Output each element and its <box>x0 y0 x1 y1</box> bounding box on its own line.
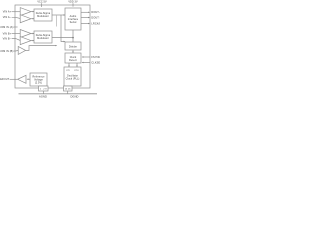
op-amp A1 <box>20 8 31 16</box>
op-amp A4 <box>20 37 31 45</box>
svg-text:VCOM IN (A): VCOM IN (A) <box>0 26 13 29</box>
wire VIN B+ to amp A3 <box>12 33 21 35</box>
svg-text:(2.5V): (2.5V) <box>35 82 42 85</box>
svg-text:DOUT A: DOUT A <box>91 11 100 14</box>
wire DGND stub <box>67 91 69 94</box>
svg-text:VCOM IN (B): VCOM IN (B) <box>0 50 13 53</box>
svg-text:DOUT B: DOUT B <box>91 16 100 19</box>
label U3 text <box>69 45 77 48</box>
divider block U3 <box>65 42 81 50</box>
svg-text:XTI: XTI <box>66 70 70 72</box>
wire vertical rail node N1 <box>56 15 58 27</box>
wire DOUT A arrow <box>81 12 90 13</box>
label U5 pin XTI <box>66 70 70 72</box>
op-amp A6 reference buffer <box>18 75 26 83</box>
wire U6 to buffer arrow <box>27 79 30 80</box>
label pin FSYNC <box>91 56 100 59</box>
svg-text:FSYNC: FSYNC <box>91 56 100 59</box>
label U2 text <box>68 15 79 24</box>
svg-text:VIN A+: VIN A+ <box>3 11 12 14</box>
label ground DGND <box>70 95 78 99</box>
wire A1 out arrow <box>31 11 34 12</box>
svg-text:Divider: Divider <box>69 45 77 48</box>
svg-text:VREFOUT: VREFOUT <box>0 78 10 81</box>
wire A2 out arrow <box>31 18 34 19</box>
wire A3 out arrow <box>31 33 34 34</box>
wire U3 to U4 arrow <box>72 50 73 53</box>
pin VDD (top) <box>72 3 74 6</box>
label U4 text <box>69 56 77 62</box>
pin VCC (top) <box>41 3 43 7</box>
svg-text:VDD 3V: VDD 3V <box>68 1 78 4</box>
clock block U4 <box>65 53 81 63</box>
wire DOUT B arrow <box>81 17 90 18</box>
wire LRCK arrow <box>81 23 90 24</box>
wire VIN A- to amp A2 <box>12 17 21 18</box>
label pin VIN A- <box>3 16 12 19</box>
wire U2 down to divider <box>72 30 74 42</box>
label pin DOUT A <box>91 11 101 14</box>
label pin VREFOUT <box>0 78 10 81</box>
label VCC <box>37 1 47 4</box>
label AGND pin numbers <box>40 89 47 91</box>
svg-text:Clock (PLL): Clock (PLL) <box>66 78 80 81</box>
modulator block M2 <box>34 31 52 43</box>
label VDD <box>68 1 78 4</box>
wire VREF out <box>10 78 18 80</box>
svg-text:XTO: XTO <box>74 70 79 72</box>
svg-text:Serial: Serial <box>70 21 77 24</box>
modulator block M1 <box>34 9 52 21</box>
wire FSYNC arrow <box>82 56 90 57</box>
IC outline U1 <box>15 5 90 88</box>
svg-text:Modulator: Modulator <box>37 15 49 18</box>
svg-text:LRCK/BCK: LRCK/BCK <box>91 22 100 25</box>
wire A4 out arrow <box>31 40 34 41</box>
wire VCOM B to amp A5 <box>14 49 19 52</box>
label pin VIN A+ <box>3 11 12 14</box>
svg-text:DGND: DGND <box>70 95 78 99</box>
oscillator block U5 <box>64 67 81 86</box>
wire AGND stub <box>43 91 45 94</box>
pin block DGND <box>64 86 73 91</box>
svg-text:VIN B−: VIN B− <box>3 38 12 41</box>
svg-text:VCC 5V: VCC 5V <box>37 1 47 4</box>
wire A5 output to rail arrow <box>26 45 58 51</box>
label U5 text <box>66 75 80 81</box>
wire branch to serial port <box>61 15 65 42</box>
label M2 text <box>36 34 51 40</box>
wire CLKSEL arrow <box>82 62 90 63</box>
wire VIN A+ to amp A1 <box>12 11 21 13</box>
wire U4 to U5 arrow right <box>76 63 77 67</box>
label U5 pin XTO <box>74 70 79 72</box>
label pin VIN B- <box>3 38 12 41</box>
label pin LRCK <box>91 22 105 25</box>
label M1 text <box>36 12 51 18</box>
label DGND pin numbers <box>65 89 72 91</box>
svg-text:Detect: Detect <box>69 59 77 62</box>
label ground AGND <box>39 95 47 99</box>
svg-text:15 16: 15 16 <box>65 89 72 91</box>
reference block U6 <box>30 73 47 86</box>
svg-text:VIN B+: VIN B+ <box>3 33 12 36</box>
op-amp A2 <box>20 15 31 23</box>
wire U4 to U5 arrow left <box>68 63 69 67</box>
svg-text:Modulator: Modulator <box>37 37 49 40</box>
ground bus <box>19 93 98 95</box>
label pin VCOM B <box>0 50 13 53</box>
junction node N2 <box>72 37 74 39</box>
label pin VCOM A <box>0 26 13 29</box>
pin block AGND <box>39 86 49 91</box>
label pin CLKSEL <box>91 61 102 64</box>
svg-text:VIN A−: VIN A− <box>3 16 12 19</box>
op-amp A5 common-mode buffer <box>18 46 25 54</box>
filter block U2 <box>65 8 81 30</box>
label pin DOUT B <box>91 16 101 19</box>
wire M2 out to node N2 <box>52 37 73 39</box>
label pin VIN B+ <box>3 33 12 36</box>
svg-text:AGND: AGND <box>39 95 47 99</box>
op-amp A3 <box>20 30 31 38</box>
label U6 text <box>32 76 45 85</box>
wire VIN B- to amp A4 <box>12 39 21 41</box>
svg-text:CLKSEL: CLKSEL <box>91 61 100 64</box>
wire VCOM A stub <box>14 26 18 28</box>
wire M1 out to U2 arrow <box>52 14 65 15</box>
